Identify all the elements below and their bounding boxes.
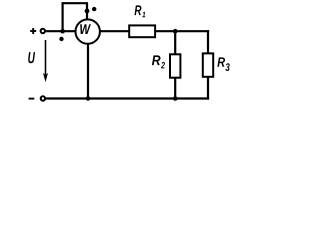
polarity dot on voltage-coil wire [85,9,90,14]
junction node at top-left of wattmeter [60,29,65,34]
label R2 [152,55,165,68]
resistor R1 [129,25,155,37]
label R1 [135,5,146,17]
resistor R3 [203,53,213,76]
wire: down to R2 [174,31,176,54]
junction node: bottom of R2 branch [173,96,178,101]
voltage arrow U [43,40,48,82]
wire: bottom rail [46,97,210,99]
polarity dot below top wire [59,37,63,41]
wire: R1 to top-right corner [155,30,209,32]
wire: voltage-coil loop over wattmeter [63,3,87,31]
wattmeter U1 [76,19,100,43]
junction node: bottom of wattmeter branch [86,96,91,101]
polarity dot right of voltage-coil wire [92,7,96,11]
wire: wattmeter voltage coil to bottom rail [87,44,89,99]
terminal - [41,96,45,100]
terminal + [41,29,45,33]
wire: wattmeter to R1 [100,30,130,32]
label R3 [217,57,229,71]
wire: + terminal to wattmeter [46,30,77,32]
plus sign [30,28,36,34]
resistor R2 [170,54,180,77]
minus sign [29,98,35,100]
junction node: top of R2 branch [173,29,178,34]
wire: top-right corner down to R3 [207,30,209,53]
wire: R3 to bottom-right corner [207,77,209,100]
label U [28,52,35,63]
wire: R2 to bottom rail [174,78,176,99]
